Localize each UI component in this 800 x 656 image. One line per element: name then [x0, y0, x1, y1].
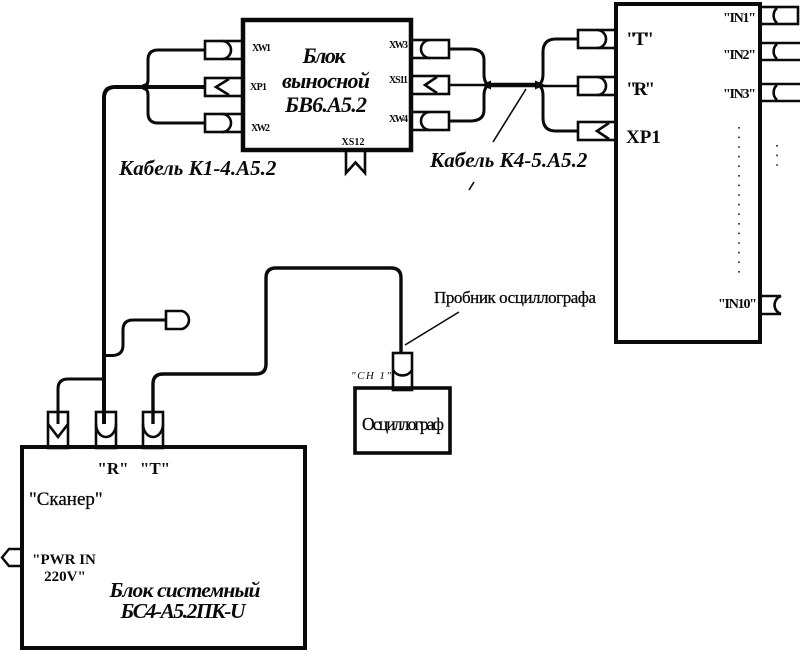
- svg-text:"R": "R": [626, 79, 655, 100]
- svg-text:Блок: Блок: [302, 43, 347, 68]
- oscilloscope box outline: [355, 388, 450, 453]
- connector XW3 plug: [411, 40, 449, 58]
- svg-text:БВ6.А5.2: БВ6.А5.2: [284, 92, 367, 117]
- wire Scaner branch: [58, 379, 103, 424]
- wire stub plug branch: [104, 320, 166, 356]
- wire branch to XP1: [537, 85, 578, 131]
- ellipsis dotted line outer: [776, 145, 778, 172]
- wire cable K1-4 main XP1 to system block R: [104, 87, 205, 424]
- connector XW4 plug: [411, 112, 449, 130]
- svg-text:"IN10": "IN10": [718, 297, 757, 312]
- label PWR IN 220V: [32, 552, 96, 585]
- connector IN2: [760, 43, 800, 60]
- junction cable K1-4: [137, 83, 147, 92]
- svg-text:"R": "R": [97, 459, 128, 478]
- svg-text:Осциллограф: Осциллограф: [362, 414, 444, 434]
- block БВ6.А5.2 title text: [282, 43, 370, 117]
- svg-text:"T": "T": [626, 29, 654, 50]
- connector XP1 socket: [205, 78, 243, 96]
- connector IN10 socket: [760, 296, 781, 314]
- junction right K4-5: [535, 81, 545, 90]
- connector XP1 socket right box: [578, 122, 616, 140]
- connector Scaner socket on system block: [48, 412, 68, 448]
- svg-text:"PWR IN: "PWR IN: [32, 552, 96, 568]
- wire T branch to oscilloscope probe: [153, 268, 401, 424]
- svg-text:"IN1": "IN1": [723, 11, 756, 26]
- svg-text:Пробник осциллографа: Пробник осциллографа: [434, 288, 596, 307]
- right box outline: [616, 4, 760, 342]
- block БВ6.А5.2 outline: [243, 20, 411, 150]
- svg-text:220V": 220V": [44, 569, 86, 585]
- connector probe CH1: [393, 353, 412, 390]
- svg-text:XS12: XS12: [342, 137, 365, 148]
- junction left K4-5: [481, 81, 491, 90]
- svg-text:XS11: XS11: [389, 75, 408, 86]
- connector R plug on system block: [96, 412, 116, 448]
- connector XS12 socket flag: [346, 151, 365, 173]
- svg-text:XW4: XW4: [389, 114, 408, 125]
- connector XS11 socket: [411, 76, 449, 94]
- wire XW3 branch: [449, 49, 490, 85]
- connector T plug on system block: [143, 412, 163, 448]
- svg-text:XW3: XW3: [389, 40, 408, 51]
- svg-text:Кабель К1-4.А5.2: Кабель К1-4.А5.2: [118, 156, 277, 180]
- wire XW2 branch: [143, 87, 205, 123]
- wire XW1 branch: [143, 50, 205, 88]
- connector XW2 plug: [205, 114, 243, 132]
- callout line probe: [405, 312, 459, 345]
- connector R plug: [578, 77, 616, 95]
- svg-text:"IN3": "IN3": [723, 87, 756, 102]
- svg-text:выносной: выносной: [282, 68, 370, 93]
- wire branch to R: [537, 85, 578, 88]
- stray slash mark: [469, 182, 474, 190]
- svg-text:XP1: XP1: [250, 82, 267, 93]
- svg-text:Кабель К4-5.А5.2: Кабель К4-5.А5.2: [429, 148, 588, 172]
- connector IN3: [760, 84, 800, 101]
- ellipsis dotted line inner: [738, 127, 740, 274]
- svg-text:"Сканер": "Сканер": [29, 489, 103, 510]
- system block title text: [109, 578, 261, 623]
- wire cable K4-5 main: [449, 84, 489, 87]
- connector free plug stub: [166, 311, 189, 329]
- svg-text:"T": "T": [140, 459, 170, 478]
- callout line K4-5: [493, 89, 526, 142]
- svg-text:"IN2": "IN2": [723, 48, 756, 63]
- svg-text:БС4-А5.2ПК-U: БС4-А5.2ПК-U: [120, 599, 247, 623]
- system block outline: [22, 447, 305, 648]
- svg-text:XW1: XW1: [252, 43, 271, 54]
- svg-text:XW2: XW2: [251, 123, 270, 134]
- connector XW1 plug: [205, 41, 243, 59]
- cable K4-5 thick bundle segment: [488, 83, 538, 88]
- connector T plug: [578, 30, 616, 48]
- wire branch to T: [537, 39, 578, 85]
- connector IN1: [760, 7, 798, 24]
- svg-text:XP1: XP1: [626, 127, 661, 148]
- svg-text:"СН 1": "СН 1": [351, 370, 391, 382]
- connector PWR IN arrow: [2, 549, 22, 566]
- wire XW4 branch: [449, 85, 490, 121]
